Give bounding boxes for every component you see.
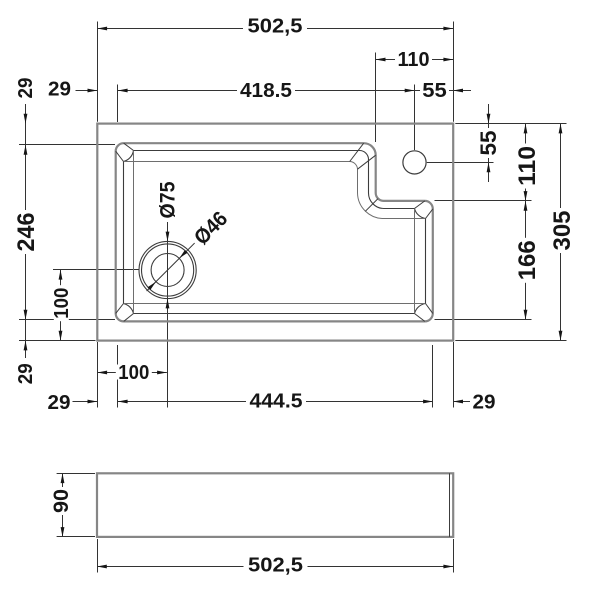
corner miter diagonals notch corner right	[426, 209, 433, 219]
extension line: plan outer left edge up	[97, 22, 99, 122]
extension line: outer bottom right	[455, 340, 566, 342]
extension line: 29 offset bottom	[117, 345, 119, 408]
dimension 29 bottom left	[71, 401, 97, 403]
label 305 right	[549, 208, 576, 253]
faucet hole circle	[403, 151, 426, 174]
dimension 55 top	[415, 90, 454, 92]
drain outer circle (O75)	[139, 241, 196, 298]
svg-text:29: 29	[48, 79, 71, 101]
svg-text:100: 100	[51, 288, 73, 319]
dimension 29 bottom right	[453, 401, 470, 403]
dimension 305 right	[560, 124, 562, 341]
svg-text:110: 110	[514, 146, 541, 186]
dimension 166 right	[524, 201, 528, 211]
label 502,5 side	[244, 554, 308, 576]
dimension O46 diagonal	[147, 241, 197, 291]
basin rim gray boundary	[116, 143, 433, 321]
label 166 right	[514, 238, 541, 283]
basin floor inner line right	[414, 209, 416, 314]
corner miter diagonal notch inner concave	[365, 199, 378, 212]
label 418.5	[237, 80, 295, 102]
svg-text:502,5: 502,5	[248, 16, 303, 38]
label 29 top left	[46, 79, 73, 101]
dimension 90 side	[62, 473, 64, 537]
label O46	[187, 205, 234, 252]
label 246 left	[13, 210, 40, 254]
label O75	[157, 179, 180, 221]
svg-text:246: 246	[13, 213, 40, 252]
extension line: rim bottom right	[435, 319, 532, 321]
corner miter diagonals bottom-right	[426, 304, 433, 314]
basin floor inner line top/notch	[124, 162, 426, 219]
corner miter diagonals bottom-left	[116, 304, 124, 314]
label 55 top	[420, 80, 449, 102]
dimension O75	[166, 232, 170, 242]
dimension 502,5 top	[97, 28, 453, 30]
svg-text:29: 29	[15, 78, 37, 99]
extension line: side bottom-right down	[453, 539, 455, 573]
label 55 right	[476, 128, 501, 158]
corner miter diagonals top-left	[116, 151, 124, 161]
dimension 55 right	[488, 104, 490, 182]
extension line: notch bottom right	[435, 200, 532, 202]
svg-text:502,5: 502,5	[248, 554, 303, 576]
extension line: outer right down	[453, 342, 455, 408]
side view rectangle	[97, 473, 453, 537]
svg-text:29: 29	[15, 363, 37, 384]
drain second circle	[142, 244, 194, 296]
extension line: rim top left	[19, 144, 115, 146]
extension line: 29 offset top	[117, 85, 119, 123]
extension line: drain centre vertical	[167, 222, 169, 408]
extension line: rim bottom left	[19, 319, 115, 321]
svg-text:55: 55	[476, 131, 501, 156]
dimension 100 left	[60, 270, 62, 341]
extension line: outer left down	[97, 342, 99, 408]
label 502,5 top	[243, 16, 307, 38]
label 100 bottom	[116, 362, 152, 384]
drain inner circle (O46)	[151, 254, 184, 287]
extension line: side bottom left	[57, 536, 95, 538]
label 29 left top	[15, 75, 37, 101]
svg-text:110: 110	[398, 49, 430, 71]
plan view outer rectangle	[97, 124, 453, 341]
label 110 top	[395, 49, 432, 71]
extension line: side top left	[57, 473, 95, 475]
basin floor inner line bottom	[124, 303, 426, 305]
label 29 bottom left	[46, 392, 73, 414]
extension line: side bottom-left down	[97, 539, 99, 573]
corner miter diagonals notch top concave	[350, 143, 364, 161]
svg-text:444.5: 444.5	[250, 391, 303, 413]
svg-text:29: 29	[473, 391, 496, 413]
dimension 100 bottom	[97, 372, 167, 374]
svg-text:305: 305	[549, 211, 576, 251]
label 100 left	[51, 285, 73, 321]
svg-text:418.5: 418.5	[240, 80, 292, 102]
dimension 444.5	[118, 401, 433, 403]
basin rim middle line	[124, 150, 426, 313]
extension line: notch left up	[375, 53, 377, 143]
dimension 502,5 side	[97, 566, 453, 568]
svg-text:100: 100	[118, 362, 149, 384]
dimension 110 right	[525, 124, 527, 320]
extension line: outer bottom left	[19, 340, 96, 342]
extension line: drain centre left	[53, 269, 139, 271]
extension line: outer top to right	[455, 123, 566, 125]
svg-text:29: 29	[48, 392, 71, 414]
svg-text:166: 166	[514, 240, 541, 280]
dimension 29 top row	[76, 90, 98, 92]
extension line: plan outer right edge up	[453, 22, 455, 122]
label 29 bottom right	[471, 391, 498, 413]
dimension 418.5	[118, 90, 415, 92]
label 90 side	[50, 487, 73, 515]
svg-text:90: 90	[50, 489, 73, 513]
extension line: 444.5 right end down	[432, 345, 434, 408]
side view right seam line	[449, 473, 451, 537]
svg-text:55: 55	[422, 80, 447, 102]
label 110 right	[514, 144, 541, 189]
extension line: faucet centre right	[427, 162, 494, 164]
basin floor inner line left	[133, 151, 135, 314]
label 29 left bottom	[15, 361, 37, 387]
dimension 110 top	[376, 59, 454, 61]
label 444.5	[246, 391, 306, 413]
svg-text:Ø75: Ø75	[157, 181, 180, 218]
extension line: faucet centre up	[414, 85, 416, 151]
dimension chain left 29/246/29	[25, 104, 27, 358]
